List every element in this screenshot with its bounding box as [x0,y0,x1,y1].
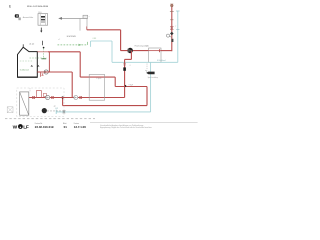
svg-text:Gußkessel: Gußkessel [20,69,30,71]
frame dashed bottom left [5,118,95,120]
riser shutoff dark [170,32,174,36]
valve 3 [79,96,82,98]
dashed enclosure [17,88,64,117]
mixer jog horizontal [125,58,132,60]
boiler return pipe [37,71,72,73]
drain stub [41,72,44,77]
heat meter box [149,48,161,62]
wall boiler box [38,12,48,25]
svg-text:W: W [13,124,18,130]
riser tick 2 [170,19,173,21]
cold water valve [63,111,66,113]
flue duct [80,15,90,30]
svg-text:ø1 ø2: ø1 ø2 [29,44,34,46]
sensor cable vertical green [41,47,46,59]
supply pipe drop right [120,30,122,51]
valve on drop [123,63,125,65]
svg-text:LF: LF [23,124,29,130]
box to pump dashed stub [146,64,148,71]
dhw loading pump dark [145,70,154,74]
safety group box [43,93,46,96]
mixer jog vertical [130,51,132,60]
svg-text:KW: KW [55,108,58,110]
outdoor sensor icon [15,14,21,20]
pump 3 [74,96,78,100]
circulation dashed line [47,110,66,112]
svg-text:ϑ Rücklauf: ϑ Rücklauf [157,60,166,62]
sensor cable arrow green [58,42,88,46]
dhw station box [89,75,104,101]
svg-text:WGL-1.02-WGL43/60: WGL-1.02-WGL43/60 [27,6,49,8]
WOLF logo [13,124,29,130]
return riser tick [176,29,179,31]
thermometer [171,39,173,42]
air vent [170,4,173,7]
storage tank [20,92,29,115]
boiler condensate arrow [40,28,42,33]
svg-text:23.02.010-019: 23.02.010-019 [35,125,54,129]
loading supply horizontal [80,76,115,78]
junction dot [124,85,126,87]
boiler [17,44,37,77]
circulation pump dark [42,108,47,113]
svg-text:ϑ SpF: ϑ SpF [129,84,134,86]
dark pump on drop [123,67,126,70]
mixer drop pipe [124,59,126,97]
return stub [90,41,92,47]
small valve 2 [51,96,54,98]
svg-text:Eigenplanung: Regeln der Techn: Eigenplanung: Regeln der Technik und ört… [100,126,153,129]
svg-text:ϑ KF: ϑ KF [93,38,97,40]
cold water stub [55,110,57,114]
riser tick 1 [170,11,174,13]
tank sensor dashed stub [29,88,31,92]
return riser teal [177,11,179,62]
svg-text:Speicherladep.: Speicherladep. [148,77,159,79]
svg-text:ϑ VL: ϑ VL [146,46,150,48]
svg-text:13.7.1.06: 13.7.1.06 [74,125,86,129]
supply pipe top horizontal [87,29,121,31]
cold water pipe teal [56,111,150,113]
supply pipe to riser [161,50,172,52]
svg-text:ϑ: ϑ [130,65,131,67]
svg-text:ø: ø [89,16,90,18]
manometer [166,34,171,37]
small pump on tank pipe [46,95,50,99]
boiler supply pipe [37,51,48,53]
return drop pipe [71,72,73,98]
flue gas arrow line [58,17,87,20]
svg-text:ϑ SpVL: ϑ SpVL [96,78,101,80]
svg-text:M Ø FS/B: M Ø FS/B [67,36,76,38]
loading down right [146,87,148,106]
riser valve [170,27,173,30]
return pipe to boiler [91,40,112,42]
return pipe horizontal [112,61,178,63]
loading bottom horizontal [63,105,147,107]
loading up left [62,98,64,106]
supply drop at 80 [79,52,81,77]
flue connector stub red [86,26,88,29]
boiler inner dashed green 2 [20,60,33,62]
supply pipe to pump [121,50,149,52]
divider line right [90,121,198,123]
svg-text:01: 01 [64,125,68,129]
svg-text:WGL: WGL [38,12,42,14]
return riser top tick [176,10,180,12]
branch dot [62,96,64,98]
supply riser [171,7,173,51]
pipe bridge [36,91,41,98]
loading drop [114,77,116,86]
svg-text:x 2: x 2 [58,39,60,41]
svg-text:E: E [9,4,11,8]
supply tee drop [48,52,50,72]
return pipe vertical mid [111,41,113,62]
tank valve [32,96,35,98]
junction x-box [7,107,13,113]
dhw return riser teal [150,62,152,112]
tank supply pipe [29,97,125,99]
boiler inner dashed green [30,57,47,59]
loading horizontal mid [115,86,147,88]
svg-text:Aussenfühler: Aussenfühler [23,16,34,19]
boiler circulation pump [44,70,48,74]
heating circuit pump [128,48,133,53]
